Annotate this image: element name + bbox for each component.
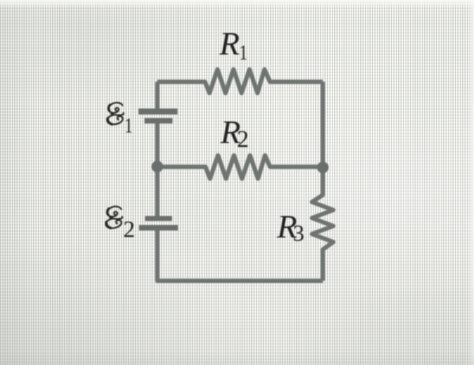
svg-text:3: 3: [293, 221, 305, 246]
svg-text:R: R: [219, 27, 240, 63]
svg-text:2: 2: [237, 127, 249, 153]
svg-text:1: 1: [239, 42, 247, 65]
svg-text:2: 2: [123, 217, 135, 243]
svg-text:1: 1: [125, 115, 133, 138]
